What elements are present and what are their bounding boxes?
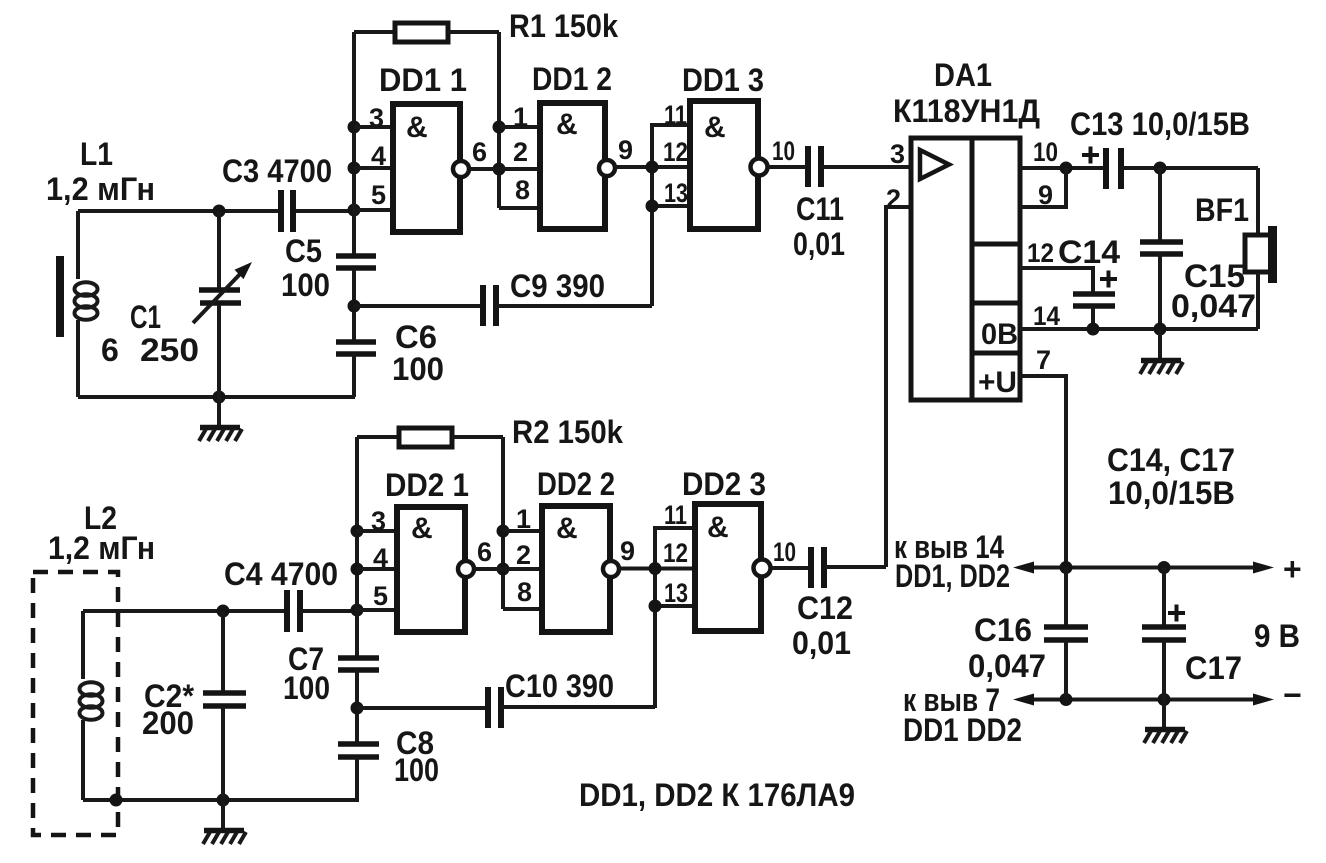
wire: +9V rail: [1030, 566, 1253, 570]
svg-text:DD1 3: DD1 3: [682, 62, 764, 98]
pin 7 wire to +U rail: [1020, 376, 1066, 567]
inductor L1: [56, 211, 98, 397]
node pin10: [1060, 162, 1073, 175]
svg-text:5: 5: [373, 581, 388, 611]
svg-text:C1: C1: [130, 299, 161, 335]
node: C1 top junction: [213, 205, 226, 218]
resistor R1: [354, 23, 499, 42]
svg-text:100: 100: [392, 351, 444, 387]
svg-text:7: 7: [1036, 345, 1051, 375]
wire: DD1 input vertical (pins 3,4,5 tie): [352, 32, 356, 211]
capacitor C17 (electrolytic): [1142, 568, 1186, 729]
node C10 junction: [351, 702, 364, 715]
node pin4: [348, 162, 361, 175]
svg-text:DD1, DD2: DD1, DD2: [895, 558, 1010, 594]
gate DD2.3 input network: [649, 528, 696, 708]
svg-text:DA1: DA1: [934, 57, 992, 93]
svg-text:1,2 мГн: 1,2 мГн: [48, 530, 155, 566]
svg-text:C17: C17: [1185, 650, 1242, 686]
wire: L1 tank top wire: [78, 209, 280, 213]
svg-text:0,01: 0,01: [793, 226, 845, 262]
svg-text:0,01: 0,01: [792, 625, 851, 661]
svg-text:+: +: [1283, 551, 1302, 587]
gate DD2.1: [357, 507, 542, 632]
svg-text:13: 13: [664, 178, 688, 208]
svg-text:4: 4: [371, 141, 386, 171]
node pin1 DD2.2: [497, 525, 510, 538]
svg-text:L1: L1: [80, 136, 113, 172]
svg-text:11: 11: [664, 500, 687, 530]
svg-text:4: 4: [373, 543, 388, 573]
svg-text:10: 10: [772, 136, 795, 166]
capacitor C7: [338, 611, 379, 744]
svg-text:100: 100: [281, 267, 330, 303]
svg-text:1,2 мГн: 1,2 мГн: [46, 171, 155, 207]
svg-text:0,047: 0,047: [1171, 288, 1256, 324]
svg-text:C10 390: C10 390: [505, 668, 614, 704]
svg-text:3: 3: [890, 139, 905, 169]
svg-text:DD2 1: DD2 1: [385, 467, 469, 503]
svg-text:13: 13: [664, 578, 688, 608]
svg-text:BF1: BF1: [1195, 192, 1249, 228]
pin 14 wire: [1020, 327, 1258, 331]
capacitor C13 (electrolytic): [1082, 147, 1258, 190]
svg-text:R2 150k: R2 150k: [512, 414, 623, 450]
gate DD2.2: [503, 506, 655, 632]
svg-text:C5: C5: [285, 233, 322, 269]
svg-text:К118УН1Д: К118УН1Д: [893, 93, 1040, 129]
svg-text:DD2 3: DD2 3: [682, 466, 766, 502]
svg-text:C6: C6: [395, 319, 437, 355]
svg-text:100: 100: [283, 670, 330, 706]
capacitor C8: [338, 744, 379, 800]
capacitor C9 with wires: [354, 285, 652, 326]
svg-text:C12: C12: [797, 590, 853, 626]
svg-text:10: 10: [773, 537, 796, 567]
svg-text:2: 2: [513, 137, 528, 167]
capacitor C12: [811, 547, 886, 588]
ground below C17: [1144, 730, 1187, 744]
wire: L2 tank top wire: [83, 609, 284, 613]
svg-text:6: 6: [472, 137, 487, 167]
svg-text:250: 250: [140, 332, 199, 368]
node C17 bottom: [1158, 693, 1171, 706]
gate DD2.3: [695, 504, 808, 631]
capacitor C2: [203, 611, 246, 800]
gate DD1.1: [354, 104, 540, 232]
node pin4 DD2.1: [351, 563, 364, 576]
wire: C3 to DD1.1 input node: [296, 209, 354, 213]
svg-text:0,047: 0,047: [968, 648, 1046, 684]
svg-text:DD1, DD2 К 176ЛА9: DD1, DD2 К 176ЛА9: [579, 777, 855, 813]
svg-text:C4 4700: C4 4700: [224, 556, 338, 592]
svg-text:1: 1: [516, 504, 531, 534]
svg-text:9: 9: [620, 536, 635, 566]
svg-text:C14, C17: C14, C17: [1107, 442, 1235, 478]
wire: R2 right vertical: [501, 437, 505, 609]
node C16 bottom: [1060, 693, 1073, 706]
resistor R2: [357, 428, 503, 447]
node: C1 bottom junction: [213, 391, 226, 404]
speaker BF1: [1245, 168, 1277, 329]
svg-text:100: 100: [394, 752, 439, 788]
svg-text:5: 5: [371, 180, 386, 210]
svg-text:9 В: 9 В: [1254, 618, 1300, 654]
svg-text:0В: 0В: [981, 318, 1018, 351]
svg-text:C9 390: C9 390: [510, 268, 605, 304]
svg-text:C13 10,0/15В: C13 10,0/15В: [1070, 106, 1250, 142]
node +U / C16 top: [1060, 561, 1073, 574]
pin 9 wire loop: [1020, 168, 1066, 207]
svg-text:9: 9: [1038, 180, 1053, 210]
node: pin5 / C3 junction: [348, 204, 361, 217]
svg-text:6: 6: [477, 537, 492, 567]
arrow right +: [1253, 562, 1274, 574]
capacitor C15: [1140, 168, 1183, 329]
wire DA1 pin2 from C12: [886, 207, 911, 567]
svg-text:&: &: [556, 512, 578, 545]
svg-text:12: 12: [1027, 238, 1054, 268]
svg-text:8: 8: [517, 577, 532, 607]
wire: L2 tank bottom wire: [83, 798, 359, 802]
svg-text:&: &: [704, 111, 726, 144]
svg-text:&: &: [556, 108, 578, 141]
capacitor C3: [281, 190, 293, 232]
node pin2 DD2.2: [497, 563, 510, 576]
svg-text:9: 9: [618, 135, 633, 165]
svg-text:2: 2: [886, 184, 901, 214]
svg-text:10,0/15В: 10,0/15В: [1108, 475, 1235, 511]
node pin14/C14: [1087, 323, 1100, 336]
wire: L1 tank bottom wire: [78, 395, 355, 399]
node pin1 DD1.2: [493, 121, 506, 134]
wire: minus rail: [1030, 698, 1253, 702]
svg-text:3: 3: [369, 103, 384, 133]
node C17 top: [1158, 561, 1171, 574]
pin 10 wire: [1020, 166, 1103, 170]
node pin2 DD1.2: [493, 163, 506, 176]
op-amp DA1 К118УН1Д: [911, 138, 1020, 400]
svg-text:3: 3: [371, 506, 386, 536]
node pin3 DD2.1: [351, 525, 364, 538]
ground below C2: [203, 800, 246, 844]
wire: DD2 input vertical: [355, 437, 359, 611]
node shield connection: [110, 794, 123, 807]
svg-text:DD1 1: DD1 1: [379, 62, 467, 98]
capacitor C1 (variable): [193, 211, 252, 397]
node: pin5 / C4 junction: [351, 604, 364, 617]
node C2 bottom: [217, 794, 230, 807]
svg-text:14: 14: [1033, 301, 1060, 331]
ground below C15: [1140, 329, 1183, 374]
wire: R1 right vertical to DD1.2 inputs: [497, 32, 501, 208]
svg-text:2: 2: [516, 540, 531, 570]
svg-text:6: 6: [101, 332, 119, 368]
pin 12 wire: [1020, 268, 1093, 294]
svg-text:200: 200: [142, 705, 194, 741]
svg-text:&: &: [406, 111, 428, 144]
svg-text:1: 1: [513, 102, 528, 132]
capacitor C4: [287, 590, 357, 632]
gate DD1.2: [499, 103, 652, 229]
capacitor C5: [336, 211, 376, 342]
capacitor C14 (electrolytic): [1073, 271, 1117, 330]
inductor L2: [80, 611, 103, 800]
gate DD1.3: [690, 101, 805, 229]
svg-text:8: 8: [515, 175, 530, 205]
shield dashed box around L2: [33, 572, 118, 835]
ground below C1: [199, 397, 242, 441]
capacitor C10 with wires: [357, 687, 655, 728]
svg-text:C3 4700: C3 4700: [222, 153, 332, 189]
svg-text:+U: +U: [978, 366, 1017, 399]
svg-text:12: 12: [663, 137, 688, 167]
svg-text:12: 12: [663, 538, 688, 568]
svg-text:10: 10: [1033, 137, 1058, 167]
svg-text:−: −: [1283, 677, 1302, 713]
svg-text:DD1 DD2: DD1 DD2: [903, 712, 1022, 748]
svg-text:&: &: [411, 512, 433, 545]
arrow left (к выв 7): [1013, 694, 1034, 706]
capacitor C11: [808, 146, 911, 187]
node C15 bottom: [1154, 323, 1167, 336]
node pin3: [348, 121, 361, 134]
svg-text:C11: C11: [796, 191, 844, 227]
svg-text:DD1 2: DD1 2: [532, 61, 612, 97]
svg-text:C14: C14: [1058, 234, 1120, 270]
svg-text:C16: C16: [974, 612, 1032, 648]
arrow left (к выв 14): [1013, 562, 1034, 574]
gate DD1.3 input network: [646, 125, 691, 306]
capacitor C6: [336, 342, 376, 397]
svg-text:11: 11: [664, 100, 687, 130]
node C15 top: [1154, 162, 1167, 175]
arrow right -: [1253, 694, 1274, 706]
capacitor C16: [1044, 568, 1088, 700]
node C9 junction: [348, 300, 361, 313]
node: C2 top junction: [217, 605, 230, 618]
svg-text:DD2 2: DD2 2: [537, 466, 615, 502]
svg-text:R1 150k: R1 150k: [509, 8, 618, 44]
svg-text:&: &: [707, 511, 729, 544]
